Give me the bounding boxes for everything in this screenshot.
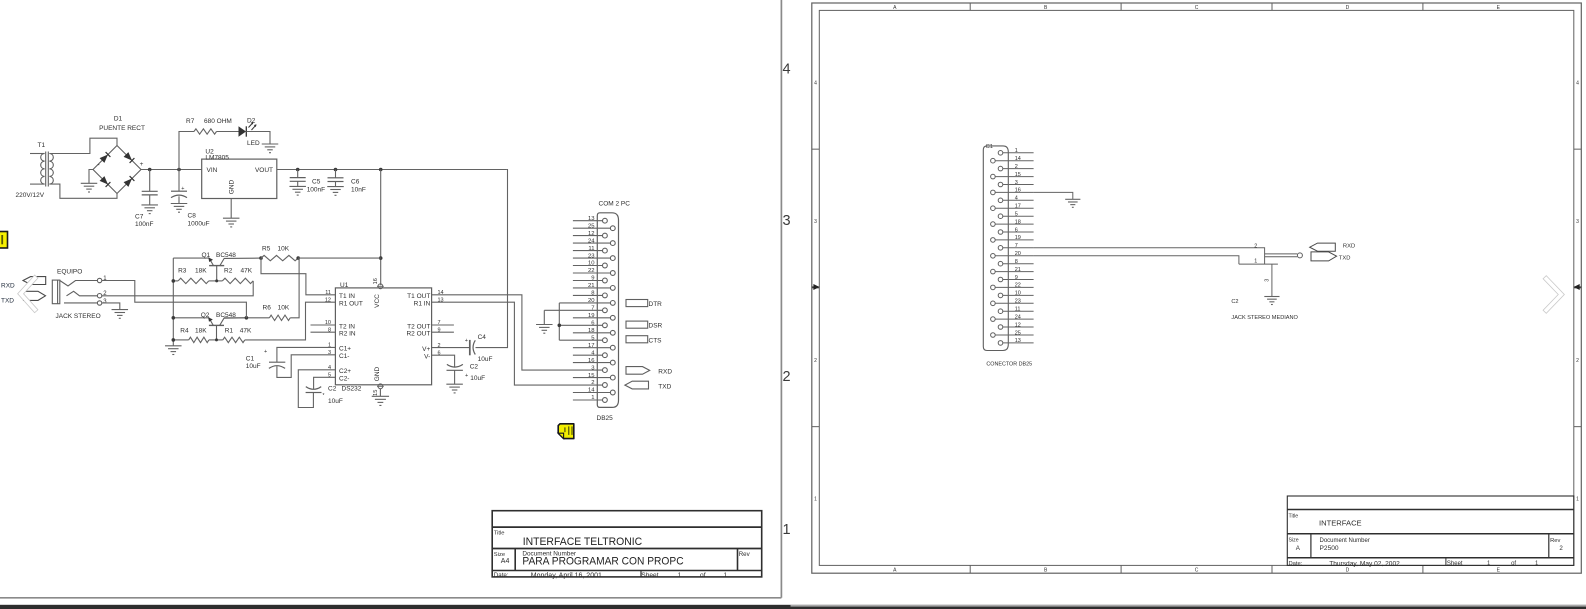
svg-text:3: 3 — [1264, 279, 1270, 282]
pin 6 — [559, 324, 602, 326]
svg-text:100nF: 100nF — [307, 186, 325, 193]
svg-text:TXD: TXD — [658, 383, 671, 390]
svg-text:1: 1 — [1015, 148, 1018, 154]
svg-text:1: 1 — [103, 276, 107, 282]
pin 4 — [573, 354, 603, 356]
wire R1 IN to DB25 pin2 — [432, 302, 603, 385]
pin 9 — [998, 277, 1003, 282]
svg-text:R1: R1 — [225, 327, 234, 334]
port arrow TXD — [625, 381, 649, 389]
svg-text:C8: C8 — [188, 213, 197, 220]
svg-text:17: 17 — [588, 343, 595, 349]
svg-text:CTS: CTS — [649, 337, 663, 344]
wire VIN node up to R7 — [179, 132, 194, 170]
svg-text:GND: GND — [228, 179, 235, 194]
svg-text:VCC: VCC — [374, 294, 381, 308]
svg-text:4: 4 — [814, 80, 817, 86]
pin 14 — [573, 392, 611, 394]
svg-text:14: 14 — [588, 388, 595, 394]
wire pin4 to C2 — [298, 370, 335, 408]
node C8/R7 junction — [177, 168, 181, 172]
node VCC drop — [379, 168, 383, 172]
svg-text:+: + — [465, 373, 468, 379]
resistor R7 680 OHM — [194, 129, 217, 134]
svg-text:100nF: 100nF — [135, 221, 153, 228]
svg-text:4: 4 — [1576, 80, 1579, 86]
port box DTR — [626, 300, 648, 307]
pin 16 — [573, 362, 611, 364]
svg-text:23: 23 — [588, 253, 595, 259]
wire Q1 emitter — [173, 257, 209, 259]
svg-text:1: 1 — [591, 395, 594, 401]
svg-text:C2+: C2+ — [339, 368, 351, 375]
svg-text:1000uF: 1000uF — [188, 220, 210, 227]
svg-text:22: 22 — [588, 268, 595, 274]
svg-text:C: C — [1195, 5, 1199, 11]
wire R7 to D2 — [217, 131, 239, 133]
svg-text:Rev: Rev — [739, 551, 751, 558]
wire C1 pin7 to jack pin2 — [1034, 248, 1265, 264]
pin 7 — [998, 246, 1003, 251]
svg-text:C2-: C2- — [339, 376, 349, 383]
resistor R6 10K — [269, 315, 290, 320]
transformer T1 — [41, 154, 54, 185]
svg-text:E: E — [1497, 567, 1501, 573]
svg-text:V-: V- — [424, 354, 430, 361]
svg-text:Rev: Rev — [1550, 538, 1560, 544]
wire jack pin3 to ground — [1271, 264, 1273, 296]
pin 22 — [991, 285, 996, 290]
svg-text:17: 17 — [1015, 204, 1021, 210]
pin 2 — [602, 384, 604, 386]
svg-text:20: 20 — [1015, 251, 1021, 257]
jack contact 2 — [67, 291, 98, 296]
svg-text:R1 OUT: R1 OUT — [339, 301, 363, 308]
capacitor C8 1000uF — [178, 170, 180, 192]
wire T1 secondary bottom to bridge AC2 — [49, 184, 117, 198]
svg-text:C1-: C1- — [339, 353, 349, 360]
wire pin2 V+ to C4 — [432, 347, 470, 349]
svg-text:680 OHM: 680 OHM — [204, 118, 232, 125]
diode D1d bottom-right — [124, 179, 132, 187]
jack shaft — [1265, 253, 1298, 255]
svg-text:Date:: Date: — [1289, 561, 1303, 567]
svg-text:2: 2 — [1254, 243, 1257, 249]
jack pin circles — [97, 278, 101, 282]
wire R3-R2 row — [173, 280, 178, 282]
svg-text:3: 3 — [814, 219, 817, 225]
pin 8 — [573, 294, 603, 296]
wire Q2 emitter — [173, 317, 209, 319]
page 1 frame bottom border — [0, 597, 781, 599]
pin 19 — [991, 238, 996, 243]
svg-text:PARA PROGRAMAR CON PROPC: PARA PROGRAMAR CON PROPC — [522, 555, 683, 567]
svg-text:21: 21 — [1015, 267, 1021, 273]
pin 24 — [573, 242, 611, 244]
jack contact 3 — [64, 302, 97, 304]
svg-text:R5: R5 — [262, 245, 271, 252]
svg-text:2: 2 — [591, 380, 594, 386]
svg-text:+: + — [465, 338, 468, 344]
svg-text:1: 1 — [783, 522, 791, 538]
jack body — [1239, 263, 1278, 265]
svg-text:21: 21 — [588, 283, 595, 289]
svg-text:of: of — [700, 572, 706, 579]
wire C1 pin20 to jack pin1 — [1034, 256, 1239, 264]
pin 14 — [991, 158, 996, 163]
svg-text:3: 3 — [103, 299, 107, 305]
svg-text:T2 OUT: T2 OUT — [407, 323, 430, 330]
node bridge/C7 junction — [148, 168, 152, 172]
bookmark icon — [0, 232, 8, 249]
pin 15 GND — [378, 384, 383, 389]
capacitor C1 10uF — [269, 361, 285, 363]
svg-text:10uF: 10uF — [470, 375, 485, 382]
pin 15 — [573, 377, 611, 379]
svg-text:DB25: DB25 — [597, 415, 614, 422]
svg-text:1: 1 — [723, 572, 727, 579]
ground at jack — [112, 309, 129, 311]
svg-text:6: 6 — [1015, 227, 1018, 233]
wire bridge + output to U2 VIN — [141, 169, 202, 171]
svg-text:16: 16 — [588, 358, 595, 364]
svg-text:15: 15 — [588, 373, 595, 379]
svg-text:DS232: DS232 — [342, 386, 362, 393]
svg-text:B: B — [1044, 567, 1048, 573]
svg-text:2: 2 — [1015, 164, 1018, 170]
svg-text:Thursday, May 02, 2002: Thursday, May 02, 2002 — [1329, 561, 1400, 568]
wire R5 left down to U1 pin11 — [261, 258, 335, 295]
svg-text:T1: T1 — [38, 142, 46, 149]
svg-text:RXD: RXD — [658, 369, 672, 376]
pin 7 — [544, 309, 602, 311]
svg-text:10K: 10K — [278, 305, 290, 312]
ground at DB25 pin7 — [536, 324, 553, 326]
column tick — [1120, 3, 1122, 10]
svg-text:Title: Title — [1289, 513, 1299, 519]
svg-text:25: 25 — [1015, 330, 1021, 336]
svg-text:2: 2 — [1559, 545, 1563, 552]
svg-text:-: - — [97, 160, 100, 169]
pin 21 — [573, 287, 611, 289]
wire R1 right to U1 pin12 — [245, 302, 336, 340]
svg-text:10uF: 10uF — [478, 356, 493, 363]
svg-text:10: 10 — [1015, 291, 1021, 297]
svg-text:12: 12 — [1015, 322, 1021, 328]
pin 10 — [998, 293, 1003, 298]
svg-text:18: 18 — [588, 328, 595, 334]
svg-text:24: 24 — [1015, 314, 1021, 320]
node R5 left — [259, 256, 263, 260]
svg-text:11: 11 — [1015, 307, 1021, 313]
LED arrows — [249, 123, 254, 128]
svg-text:VIN: VIN — [207, 167, 218, 174]
node C5 — [296, 168, 300, 172]
resistor R2 47K — [222, 278, 253, 283]
wire DB25 handshake 20-6-5 — [558, 303, 560, 340]
svg-text:R6: R6 — [263, 305, 272, 312]
bottom scrollbar — [791, 605, 1586, 607]
svg-text:1: 1 — [1487, 561, 1491, 567]
svg-text:A: A — [893, 567, 897, 573]
svg-text:CONECTOR DB25: CONECTOR DB25 — [986, 361, 1032, 367]
node Q1 base junction — [215, 279, 218, 282]
svg-text:C6: C6 — [351, 178, 360, 185]
resistor R3 18K — [178, 278, 209, 283]
svg-text:19: 19 — [1015, 235, 1021, 241]
pin 25 — [991, 333, 996, 338]
svg-text:Title: Title — [494, 530, 505, 536]
svg-text:18K: 18K — [195, 327, 207, 334]
svg-text:R1 IN: R1 IN — [414, 301, 431, 308]
svg-text:R2 OUT: R2 OUT — [406, 331, 430, 338]
svg-text:+: + — [181, 186, 184, 192]
svg-text:D: D — [1346, 567, 1350, 573]
pin 2 — [998, 166, 1003, 171]
svg-text:of: of — [1511, 561, 1516, 567]
pin 13 — [998, 341, 1003, 346]
pin 23 — [573, 257, 611, 259]
node R5 right — [296, 256, 300, 260]
svg-text:C1: C1 — [246, 355, 255, 362]
page 2 outer frame — [812, 3, 1582, 573]
page 2 inner frame — [819, 10, 1574, 565]
pin 12 — [573, 235, 603, 237]
svg-text:GND: GND — [374, 366, 381, 381]
svg-text:INTERFACE TELTRONIC: INTERFACE TELTRONIC — [523, 536, 643, 548]
svg-text:47K: 47K — [241, 267, 253, 274]
pin 4 — [998, 198, 1003, 203]
svg-text:D1: D1 — [114, 116, 123, 123]
wire T1 OUT to DB25 pin3 — [432, 295, 603, 370]
svg-text:11: 11 — [588, 246, 594, 252]
pin 10 — [573, 265, 603, 267]
pin 18 — [573, 332, 611, 334]
svg-text:D2: D2 — [247, 117, 256, 124]
port arrow RXD — [1310, 243, 1336, 251]
svg-text:2: 2 — [783, 369, 791, 385]
resistor R5 10K — [261, 255, 298, 260]
svg-text:10K: 10K — [278, 245, 290, 252]
svg-text:Size: Size — [494, 552, 505, 558]
node jack tap on Q2 collector — [245, 316, 249, 320]
svg-text:220V/12V: 220V/12V — [16, 192, 45, 199]
nav chevron previous page — [21, 278, 35, 309]
pin 24 — [991, 317, 996, 322]
svg-text:U1: U1 — [340, 282, 349, 289]
center mark right — [1574, 286, 1582, 288]
wire C2 to ground — [454, 370, 456, 384]
pin 17 — [991, 206, 996, 211]
column tick — [1422, 3, 1424, 10]
diode D1b top-right — [124, 152, 132, 160]
svg-text:1: 1 — [1576, 497, 1579, 503]
svg-text:JACK STEREO: JACK STEREO — [56, 313, 101, 320]
pin 1 — [998, 151, 1003, 156]
svg-text:Size: Size — [1289, 537, 1299, 543]
svg-text:10uF: 10uF — [246, 363, 261, 370]
capacitor C2 10uF (right) — [447, 364, 463, 367]
port arrow RXD — [626, 367, 650, 375]
pin 15 — [991, 174, 996, 179]
svg-text:4: 4 — [1015, 196, 1018, 202]
svg-text:10uF: 10uF — [328, 398, 343, 405]
wire T1 secondary top to bridge AC1 — [49, 138, 117, 153]
port box CTS — [626, 336, 648, 343]
svg-text:C1+: C1+ — [339, 346, 351, 353]
diode D1c bottom-left — [100, 176, 108, 184]
svg-text:D: D — [1346, 5, 1350, 11]
wire U2 GND pin to ground — [230, 199, 232, 219]
wire R5 right down to R6 right — [290, 258, 299, 318]
svg-text:R4: R4 — [180, 327, 189, 334]
pin 6 — [998, 230, 1003, 235]
capacitor C4 10uF — [469, 340, 471, 355]
svg-text:3: 3 — [1015, 180, 1018, 186]
svg-text:T2 IN: T2 IN — [339, 323, 355, 330]
center mark left — [812, 286, 820, 288]
ground at C1 pin16 — [1065, 198, 1080, 200]
svg-text:C4: C4 — [478, 334, 487, 341]
pin 3 — [602, 369, 604, 371]
svg-text:C2: C2 — [470, 363, 479, 370]
node Q2 emitter on bus — [172, 316, 176, 320]
svg-text:20: 20 — [588, 298, 595, 304]
svg-text:22: 22 — [1015, 283, 1021, 289]
pin 17 — [573, 347, 611, 349]
svg-text:12: 12 — [588, 231, 595, 237]
svg-text:C7: C7 — [135, 214, 144, 221]
pin 11 — [998, 309, 1003, 314]
ground at C2 — [446, 383, 463, 385]
wire ground bus — [172, 258, 174, 346]
node R5 rail junction — [379, 256, 383, 260]
wire D2 cathode to ground — [246, 132, 270, 145]
svg-text:1: 1 — [814, 497, 817, 503]
svg-text:5: 5 — [1015, 212, 1018, 218]
svg-text:19: 19 — [588, 313, 595, 319]
pin 9 — [573, 280, 603, 282]
svg-text:COM 2 PC: COM 2 PC — [599, 201, 631, 208]
pin 18 — [991, 222, 996, 227]
wire pin5 to C2 — [314, 377, 336, 389]
page 1 frame right border — [780, 0, 782, 598]
svg-text:R2 IN: R2 IN — [339, 331, 356, 338]
title block page2 — [1287, 496, 1574, 565]
svg-text:14: 14 — [1015, 156, 1021, 162]
capacitor C2 10uF (left) — [306, 392, 322, 394]
ground at D2 — [262, 143, 279, 145]
wire pin1 to C1 — [277, 347, 336, 362]
pin 5 — [998, 214, 1003, 219]
column tick — [1271, 3, 1273, 10]
port arrow RXD — [23, 277, 46, 285]
svg-text:TXD: TXD — [1339, 255, 1351, 261]
svg-text:7: 7 — [1015, 243, 1018, 249]
pin 20 — [991, 254, 996, 259]
resistor R1 47K — [223, 337, 245, 342]
svg-text:47K: 47K — [240, 327, 252, 334]
svg-text:16: 16 — [373, 278, 379, 284]
pin 13 — [573, 220, 603, 222]
pin 12 — [998, 325, 1003, 330]
pin 19 — [573, 317, 611, 319]
svg-text:R7: R7 — [186, 118, 195, 125]
wire pin6 V- to C2 — [432, 355, 455, 367]
svg-text:C5: C5 — [312, 178, 321, 185]
svg-text:A: A — [1296, 545, 1301, 552]
svg-text:R2: R2 — [224, 267, 233, 274]
svg-text:LED: LED — [247, 140, 260, 147]
svg-text:12: 12 — [325, 297, 331, 303]
LED D2 — [239, 126, 247, 136]
wire R5 right to VCC node — [298, 257, 381, 259]
pin 22 — [573, 272, 611, 274]
svg-text:18: 18 — [1015, 219, 1021, 225]
svg-text:1: 1 — [1535, 561, 1539, 567]
svg-text:23: 23 — [1015, 299, 1021, 305]
wire R4-R1 row — [173, 339, 188, 341]
wire rail right segment down to C4 — [476, 170, 508, 348]
svg-text:1: 1 — [678, 572, 682, 579]
column tick — [969, 3, 971, 10]
svg-text:RXD: RXD — [1, 282, 15, 289]
svg-text:25: 25 — [588, 223, 595, 229]
note icon — [558, 424, 574, 439]
pin 25 — [573, 227, 611, 229]
svg-text:2: 2 — [814, 358, 817, 364]
ground at U2 — [223, 217, 240, 219]
svg-text:10: 10 — [588, 261, 595, 267]
jack contact 1 — [60, 281, 98, 287]
svg-text:R3: R3 — [178, 267, 187, 274]
ground at jack C2 — [1264, 296, 1279, 298]
wire jack pin1 to Q2 collector — [102, 281, 247, 318]
port box DSR — [626, 321, 648, 328]
wire T1 primary leads — [30, 153, 45, 155]
svg-text:24: 24 — [588, 238, 595, 244]
wire U1 GND to ground — [379, 389, 381, 397]
svg-text:INTERFACE: INTERFACE — [1319, 519, 1362, 528]
port arrow TXD — [24, 291, 46, 300]
svg-text:13: 13 — [588, 216, 595, 222]
op-amp U1 DS232 — [335, 288, 431, 385]
svg-text:C2: C2 — [1231, 299, 1238, 305]
svg-text:15: 15 — [373, 390, 379, 396]
pin 3 — [998, 182, 1003, 187]
svg-text:VOUT: VOUT — [255, 167, 273, 174]
capacitor C7 100nF — [149, 170, 151, 192]
svg-text:*: * — [323, 393, 325, 399]
svg-text:C2: C2 — [328, 386, 337, 393]
wire jack pin3 to ground — [102, 303, 120, 310]
diode D1a top-left — [100, 155, 108, 163]
wire VOUT rail — [277, 169, 507, 171]
svg-text:Sheet: Sheet — [641, 572, 658, 579]
port arrow TXD — [1311, 252, 1337, 261]
svg-text:RXD: RXD — [1343, 243, 1355, 249]
svg-text:2: 2 — [1576, 358, 1579, 364]
pin 21 — [991, 269, 996, 274]
svg-text:LM7805: LM7805 — [205, 154, 229, 161]
wire C1 pin16 to ground — [1034, 192, 1073, 199]
ground at bus — [165, 345, 182, 347]
wire bridge minus to ground — [89, 170, 93, 184]
wire VCC vertical to U1 — [380, 170, 382, 286]
svg-text:C: C — [1195, 567, 1199, 573]
svg-text:EQUIPO: EQUIPO — [57, 268, 82, 275]
svg-text:8: 8 — [1015, 259, 1018, 265]
